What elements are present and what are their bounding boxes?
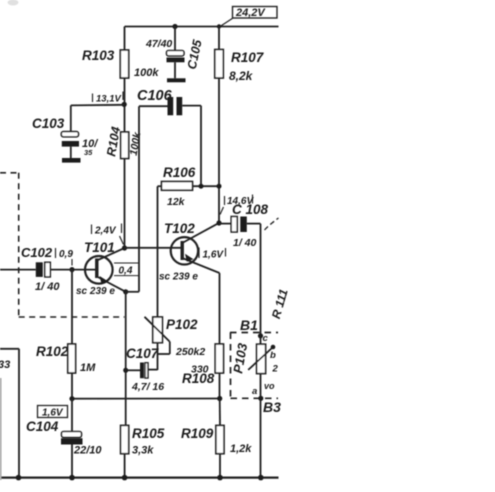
resistor R103 <box>120 50 128 78</box>
wire R104 to T101 collector node <box>124 159 126 249</box>
resistor R105 <box>121 425 129 477</box>
wire rail to R103 <box>124 27 126 51</box>
junction C107 tap on emitter line <box>123 368 128 373</box>
wire +24.2V supply rail <box>125 26 279 28</box>
top left scan smudge <box>8 0 19 6</box>
svg-text:C 108: C 108 <box>232 202 269 217</box>
resistor R102 <box>68 270 76 399</box>
svg-text:4,7/ 16: 4,7/ 16 <box>131 381 164 393</box>
svg-text:b: b <box>270 350 276 361</box>
svg-text:T102: T102 <box>164 221 195 236</box>
junction rail at P103 line <box>258 475 264 481</box>
label base voltage 0,9 <box>56 248 74 266</box>
junction node a <box>258 396 263 401</box>
svg-text:1M: 1M <box>80 362 96 374</box>
capacitor C106 <box>139 97 201 115</box>
wire R103 to 13.1V node <box>124 78 126 132</box>
junction T101 base node <box>69 267 74 272</box>
svg-text:P102: P102 <box>166 317 198 332</box>
svg-text:B1: B1 <box>240 317 258 333</box>
capacitor C105 <box>167 27 185 79</box>
wire T101 collector node to T102 base <box>125 247 183 249</box>
svg-text:0,9: 0,9 <box>59 249 73 260</box>
svg-text:R 111: R 111 <box>269 287 291 320</box>
svg-text:R102: R102 <box>36 344 69 359</box>
ground bar for C103 <box>62 158 81 163</box>
svg-text:13,1V: 13,1V <box>96 94 121 105</box>
wire rail to R107 <box>218 27 220 50</box>
wire C108 right down to P103 <box>260 224 262 478</box>
label node voltage 13,1V <box>93 92 124 105</box>
svg-text:c: c <box>263 333 269 344</box>
svg-text:2,4V: 2,4V <box>94 226 117 237</box>
svg-text:T101: T101 <box>84 240 115 255</box>
junction T102 collector / C108 node <box>216 220 221 225</box>
capacitor C107 <box>126 363 158 379</box>
svg-text:R109: R109 <box>181 426 214 441</box>
transistor T101 <box>85 248 126 292</box>
feedback node wire (1,6V line) <box>72 398 220 400</box>
svg-text:R106: R106 <box>163 165 196 180</box>
junction rail at C104 <box>69 475 75 481</box>
svg-text:C105: C105 <box>185 37 205 70</box>
wire emitter node down <box>125 292 127 426</box>
svg-text:C106: C106 <box>137 88 173 104</box>
svg-text:2: 2 <box>272 364 279 375</box>
C103 value 10/35 <box>82 138 99 157</box>
label collector voltage 14,6V <box>220 195 254 215</box>
resistor R108 <box>215 273 223 399</box>
wire R107 to T102 collector node <box>218 78 220 223</box>
svg-text:100k: 100k <box>128 130 144 156</box>
svg-text:100k: 100k <box>134 67 159 79</box>
label emitter voltage 0,4 <box>114 263 139 277</box>
junction node c <box>258 333 263 338</box>
junction R106/C106 node <box>199 184 204 189</box>
potentiometer P103 <box>248 344 275 373</box>
junction feedback node at R102/C104 <box>69 396 74 401</box>
resistor R104 <box>121 132 129 159</box>
emitter node junction T101 <box>123 289 128 294</box>
svg-text:R105: R105 <box>132 426 165 441</box>
resistor R106 <box>158 182 220 191</box>
svg-text:a: a <box>252 386 257 397</box>
wire 13.1V node to C103 <box>71 104 124 107</box>
junction on rail at C105 <box>172 24 177 29</box>
capacitor C108 <box>219 217 261 233</box>
label emitter voltage 1,6V <box>199 248 226 261</box>
svg-text:1,2k: 1,2k <box>230 443 252 455</box>
svg-text:C102: C102 <box>21 245 53 260</box>
wire emitter node to C106 line <box>126 291 139 293</box>
svg-text:0,4: 0,4 <box>119 266 133 277</box>
capacitor C102 <box>0 262 72 277</box>
svg-text:P103: P103 <box>230 341 250 374</box>
svg-text:R103: R103 <box>82 48 115 63</box>
svg-text:sc 239 e: sc 239 e <box>159 272 198 283</box>
ground rail (bottom) <box>0 476 279 478</box>
junction T101 collector node <box>122 245 127 250</box>
potentiometer P102 <box>145 317 170 370</box>
resistor R109 <box>216 399 224 478</box>
junction rail at left connector <box>16 475 22 481</box>
ground bar for C105 <box>167 78 186 82</box>
svg-text:B3: B3 <box>263 399 281 415</box>
label node voltage 1,6V <box>38 406 68 419</box>
left connector line with 33 label <box>0 349 19 477</box>
svg-text:sc 239 e: sc 239 e <box>76 286 115 297</box>
junction on rail at R107 <box>217 24 221 28</box>
junction rail at R109 <box>217 475 223 481</box>
capacitor C104 <box>61 399 83 477</box>
transistor T102 <box>171 223 220 273</box>
svg-text:1/ 40: 1/ 40 <box>35 281 60 293</box>
svg-text:C103: C103 <box>32 116 65 131</box>
svg-text:3,3k: 3,3k <box>132 445 154 457</box>
svg-text:33: 33 <box>0 359 10 371</box>
left edge scan artifact <box>0 378 2 480</box>
svg-text:8,2k: 8,2k <box>229 69 254 83</box>
label node voltage 2,4V <box>92 224 124 245</box>
svg-text:1,6V: 1,6V <box>203 250 225 261</box>
junction R106/R107 line node <box>217 184 222 189</box>
svg-text:R107: R107 <box>231 50 265 65</box>
leader tick near C108 <box>265 218 279 230</box>
wire C106 left down to T101 emitter node <box>138 106 140 292</box>
svg-text:24,2V: 24,2V <box>235 7 266 19</box>
junction node 13.1V <box>122 102 127 107</box>
wire C106 right to R106 node <box>200 106 202 187</box>
svg-text:vo: vo <box>264 381 275 391</box>
svg-text:C104: C104 <box>26 419 59 434</box>
svg-text:12k: 12k <box>167 196 186 208</box>
svg-text:35: 35 <box>84 148 93 157</box>
capacitor C103 <box>61 105 79 158</box>
svg-text:1,6V: 1,6V <box>42 408 64 419</box>
svg-text:C107: C107 <box>126 346 160 361</box>
resistor R107 <box>215 50 224 79</box>
dashed box B1 <box>230 333 278 399</box>
svg-text:22/10: 22/10 <box>73 445 102 457</box>
svg-text:250k2: 250k2 <box>175 346 205 358</box>
junction rail at R105 <box>122 475 128 481</box>
svg-text:R108: R108 <box>182 371 215 386</box>
svg-text:1/ 40: 1/ 40 <box>233 237 257 249</box>
junction feedback node at R108 <box>217 396 222 401</box>
wire R106 left down to P102 <box>157 186 159 317</box>
dashed module boundary (left) <box>0 173 125 317</box>
wire T101 base node to base <box>72 269 97 271</box>
label node voltage 24,2V <box>220 7 277 27</box>
svg-text:47/40: 47/40 <box>145 38 172 50</box>
